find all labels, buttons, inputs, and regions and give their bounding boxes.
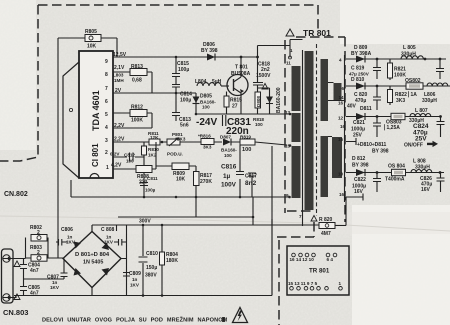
svg-text:180K: 180K: [166, 258, 178, 264]
svg-text:R812: R812: [131, 105, 143, 111]
svg-text:100: 100: [242, 147, 251, 153]
svg-text:C817: C817: [245, 174, 257, 180]
svg-text:CN.803: CN.803: [3, 308, 28, 317]
svg-text:BU508A: BU508A: [231, 71, 251, 77]
svg-text:D 801÷D 804: D 801÷D 804: [75, 252, 110, 258]
svg-text:TR 801: TR 801: [309, 268, 330, 275]
svg-text:C816: C816: [221, 164, 237, 171]
svg-text:220n: 220n: [226, 126, 249, 137]
svg-text:100: 100: [255, 122, 263, 127]
svg-text:L 807: L 807: [415, 108, 428, 114]
svg-text:C822: C822: [354, 177, 366, 183]
svg-text:C806: C806: [61, 227, 73, 233]
svg-text:TDA 4601: TDA 4601: [91, 90, 101, 131]
svg-text:12K: 12K: [150, 135, 159, 140]
svg-text:4M7: 4M7: [321, 231, 331, 237]
svg-text:T 801: T 801: [235, 65, 248, 71]
svg-text:ON/OFF: ON/OFF: [404, 143, 423, 149]
svg-text:10K: 10K: [87, 44, 97, 50]
svg-text:D808: D808: [256, 96, 261, 107]
svg-text:POD.U.: POD.U.: [167, 152, 183, 157]
svg-text:R805: R805: [85, 29, 97, 35]
svg-text:4n7: 4n7: [30, 291, 39, 297]
svg-text:D 810: D 810: [351, 77, 365, 83]
svg-text:16: 16: [339, 192, 345, 197]
svg-text:OS802: OS802: [405, 78, 421, 84]
svg-text:OS 804: OS 804: [388, 164, 405, 170]
svg-text:16: 16: [338, 137, 344, 142]
svg-text:*R816: *R816: [198, 134, 211, 139]
svg-text:4: 4: [105, 125, 108, 131]
svg-text:330µH: 330µH: [401, 52, 416, 58]
svg-text:12: 12: [338, 116, 344, 121]
svg-text:8n2: 8n2: [245, 180, 257, 187]
svg-text:2V: 2V: [115, 88, 122, 94]
svg-text:⎢1A: ⎢1A: [408, 91, 417, 98]
svg-text:3K3: 3K3: [177, 137, 186, 142]
svg-text:2,2V: 2,2V: [114, 123, 125, 129]
svg-text:L804: L804: [195, 79, 207, 85]
svg-text:2: 2: [37, 230, 40, 236]
svg-text:CN.802: CN.802: [4, 191, 28, 198]
svg-text:6 4: 6 4: [327, 257, 334, 262]
svg-text:380V: 380V: [145, 273, 157, 279]
svg-text:CI 801: CI 801: [91, 143, 100, 167]
svg-text:C821: C821: [353, 120, 365, 126]
svg-text:C811: C811: [147, 176, 158, 181]
svg-text:27: 27: [232, 104, 238, 110]
svg-text:16: 16: [340, 124, 346, 129]
svg-text:R810: R810: [148, 147, 159, 152]
svg-text:1N 5405: 1N 5405: [83, 260, 103, 266]
svg-text:15 13 11 9 7 5: 15 13 11 9 7 5: [288, 281, 318, 286]
svg-text:1MH: 1MH: [114, 78, 124, 83]
svg-text:16V: 16V: [421, 187, 431, 193]
svg-text:BY 398A: BY 398A: [351, 51, 372, 57]
svg-text:C810: C810: [146, 251, 158, 257]
svg-text:10: 10: [338, 172, 344, 177]
svg-text:C 808: C 808: [101, 227, 115, 233]
svg-text:-24V: -24V: [196, 117, 217, 128]
svg-text:3K3: 3K3: [396, 98, 405, 104]
svg-text:2: 2: [105, 150, 108, 156]
svg-text:⎢1,25A: ⎢1,25A: [384, 124, 400, 131]
svg-text:100µ: 100µ: [178, 67, 189, 73]
svg-text:+D810÷D811: +D810÷D811: [357, 142, 387, 148]
svg-text:8: 8: [105, 72, 108, 78]
svg-text:300V: 300V: [139, 219, 151, 225]
svg-text:100: 100: [202, 105, 210, 110]
svg-text:11: 11: [286, 61, 291, 66]
svg-text:4: 4: [339, 58, 342, 63]
svg-text:7: 7: [105, 86, 108, 92]
svg-text:1KV: 1KV: [50, 285, 60, 290]
svg-text:5µH: 5µH: [212, 79, 222, 85]
svg-text:9: 9: [105, 59, 108, 65]
svg-text:L803: L803: [113, 73, 124, 78]
svg-text:270K: 270K: [200, 179, 212, 185]
svg-text:0,68: 0,68: [132, 78, 142, 84]
svg-text:2,2V: 2,2V: [114, 137, 125, 143]
svg-text:4n7: 4n7: [30, 268, 39, 274]
svg-text:D811: D811: [360, 106, 372, 112]
svg-text:1KV: 1KV: [66, 240, 76, 245]
svg-text:100V: 100V: [221, 182, 237, 189]
svg-text:47µ 250V: 47µ 250V: [349, 72, 370, 77]
svg-text:40V: 40V: [347, 104, 357, 110]
svg-text:1KV: 1KV: [130, 283, 140, 288]
svg-text:6: 6: [342, 86, 345, 91]
svg-text:12,5V: 12,5V: [113, 52, 127, 58]
svg-text:470µ: 470µ: [355, 98, 366, 104]
svg-text:14: 14: [339, 95, 345, 100]
svg-text:16: 16: [338, 101, 344, 106]
svg-text:25V: 25V: [415, 136, 427, 143]
svg-text:1KV: 1KV: [104, 240, 114, 245]
svg-text:100µ: 100µ: [180, 98, 191, 104]
svg-text:100K: 100K: [131, 118, 143, 124]
svg-text:5: 5: [105, 112, 108, 118]
svg-text:DELOVI UNUTAR OVOG POLJA SU PO: DELOVI UNUTAR OVOG POLJA SU POD MREŽNIM …: [42, 316, 228, 324]
svg-text:330µH: 330µH: [415, 165, 430, 171]
svg-text:10K: 10K: [176, 177, 186, 183]
svg-text:L 805: L 805: [403, 45, 416, 51]
svg-text:330µH: 330µH: [422, 98, 437, 104]
svg-text:1: 1: [106, 165, 109, 171]
svg-text:1500V: 1500V: [256, 73, 271, 79]
svg-text:5n6: 5n6: [180, 123, 189, 129]
svg-text:6: 6: [105, 99, 108, 105]
svg-text:BA160-200: BA160-200: [276, 87, 282, 113]
svg-text:16 14 12 10: 16 14 12 10: [290, 257, 315, 262]
svg-text:1µ: 1µ: [223, 173, 231, 180]
svg-text:3: 3: [105, 138, 108, 144]
svg-text:3K3: 3K3: [203, 145, 212, 150]
svg-text:150µ: 150µ: [146, 265, 157, 271]
svg-text:TR 801: TR 801: [303, 28, 331, 38]
svg-text:100: 100: [126, 159, 134, 164]
svg-text:1n: 1n: [132, 277, 138, 282]
svg-text:25V: 25V: [353, 133, 363, 139]
svg-text:1: 1: [339, 281, 342, 286]
svg-text:4,2V: 4,2V: [111, 163, 122, 169]
svg-text:100µ: 100µ: [145, 188, 156, 193]
svg-text:100: 100: [224, 153, 232, 158]
svg-text:7: 7: [299, 214, 302, 219]
svg-text:0,2V: 0,2V: [110, 152, 120, 157]
svg-text:D 812: D 812: [352, 156, 366, 162]
svg-text:BA160-: BA160-: [221, 148, 237, 153]
svg-text:R813: R813: [131, 64, 143, 70]
svg-text:BY 398: BY 398: [372, 149, 389, 155]
svg-text:T400mA: T400mA: [385, 177, 405, 183]
svg-text:1: 1: [290, 48, 293, 53]
svg-text:C812: C812: [124, 153, 135, 158]
svg-text:16V: 16V: [354, 189, 364, 195]
svg-text:BY 398: BY 398: [201, 48, 218, 54]
svg-text:2,1V: 2,1V: [114, 65, 125, 71]
svg-text:BY 398: BY 398: [352, 163, 369, 169]
svg-text:2: 2: [37, 250, 40, 256]
